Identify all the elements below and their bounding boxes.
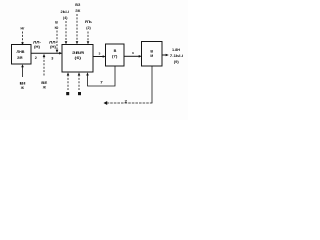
svg-text:Нг: Нг: [21, 26, 25, 30]
svg-text:ЯЪ: ЯЪ: [85, 20, 92, 24]
arrowhead x77 into B2 top: [76, 41, 79, 44]
svg-text:1.8Н: 1.8Н: [172, 48, 180, 52]
wire dashed down-arrow at x57 onto main line: [56, 31, 58, 51]
svg-text:ЛЛ-: ЛЛ-: [33, 40, 42, 44]
arrowhead recycle into B2 bottom: [86, 72, 89, 75]
svg-text:(9): (9): [174, 60, 180, 64]
wire bottom feed e into B2: [78, 75, 80, 91]
label a under bottom feed: [66, 92, 69, 95]
svg-text:ЗВЯ: ЗВЯ: [72, 50, 84, 55]
arrowhead feed a into B2 bottom: [67, 72, 70, 75]
svg-text:(4): (4): [63, 16, 68, 20]
wire main line B1 to B2: [31, 52, 61, 54]
svg-text:2Ы-і: 2Ы-і: [61, 10, 70, 14]
wire H2 feed into B1 top: [22, 32, 24, 43]
arrowhead feed e into B2 bottom: [78, 72, 81, 75]
wire B4 output right: [162, 54, 167, 56]
svg-text:ЗК: ЗК: [75, 9, 81, 13]
wire feed into B1 bottom: [22, 67, 24, 78]
svg-text:з: з: [132, 51, 134, 55]
svg-text:(Н): (Н): [50, 45, 57, 49]
svg-text:М: М: [150, 54, 153, 58]
arrowhead x88 into B2 top: [87, 41, 90, 44]
box B1 hydrogenation unit: [12, 45, 32, 65]
wire B3 to B4: [124, 55, 140, 57]
svg-text:ВЗ: ВЗ: [75, 3, 81, 7]
box B3 separator: [106, 44, 125, 66]
arrowhead into B1 top: [21, 42, 24, 45]
wire dashed feed at x88 into B2 top: [87, 32, 89, 43]
wire bottom feed a into B2: [67, 75, 69, 91]
svg-text:ЗЯ: ЗЯ: [17, 56, 23, 60]
svg-text:2: 2: [35, 56, 37, 60]
wire recycle from B3 bottom to B2 bottom: [88, 66, 116, 86]
arrowhead product out right: [166, 54, 169, 57]
label e under bottom feed: [78, 92, 81, 95]
arrowhead into B3: [103, 55, 106, 58]
svg-text:В: В: [114, 49, 117, 53]
box B4 distillation: [142, 42, 163, 67]
arrowhead x57 down onto main line: [56, 50, 59, 53]
svg-text:ЛНВ: ЛНВ: [17, 50, 25, 54]
svg-text:ВЕ: ВЕ: [41, 81, 48, 85]
svg-text:3: 3: [51, 56, 53, 60]
arrowhead recycle line pointing left: [104, 101, 108, 105]
svg-text:Ю: Ю: [55, 26, 59, 30]
svg-text:ЛЛ-: ЛЛ-: [49, 40, 58, 44]
wire joining stream up-arrow at x44: [43, 57, 45, 77]
svg-text:(Н): (Н): [34, 45, 41, 49]
wire dashed feed at x77 into B2 top: [76, 14, 78, 43]
wire B2 to B3: [93, 56, 104, 58]
arrowhead x66 into B2 top: [65, 41, 68, 44]
svg-text:з: з: [99, 51, 101, 55]
arrowhead joining stream onto main line: [43, 54, 46, 57]
svg-text:7.1Ы-і: 7.1Ы-і: [170, 54, 184, 58]
box B2 main reactor: [62, 45, 93, 73]
arrowhead into B4: [139, 55, 142, 58]
wire dashed feed at x66 into B2 top: [65, 21, 67, 43]
arrowhead into B1 bottom: [21, 64, 24, 67]
wire recycle from B4 bottom going left: [151, 66, 153, 103]
arrowhead main line into B2: [59, 52, 62, 55]
svg-text:(6): (6): [75, 56, 83, 60]
svg-text:В: В: [55, 21, 58, 25]
